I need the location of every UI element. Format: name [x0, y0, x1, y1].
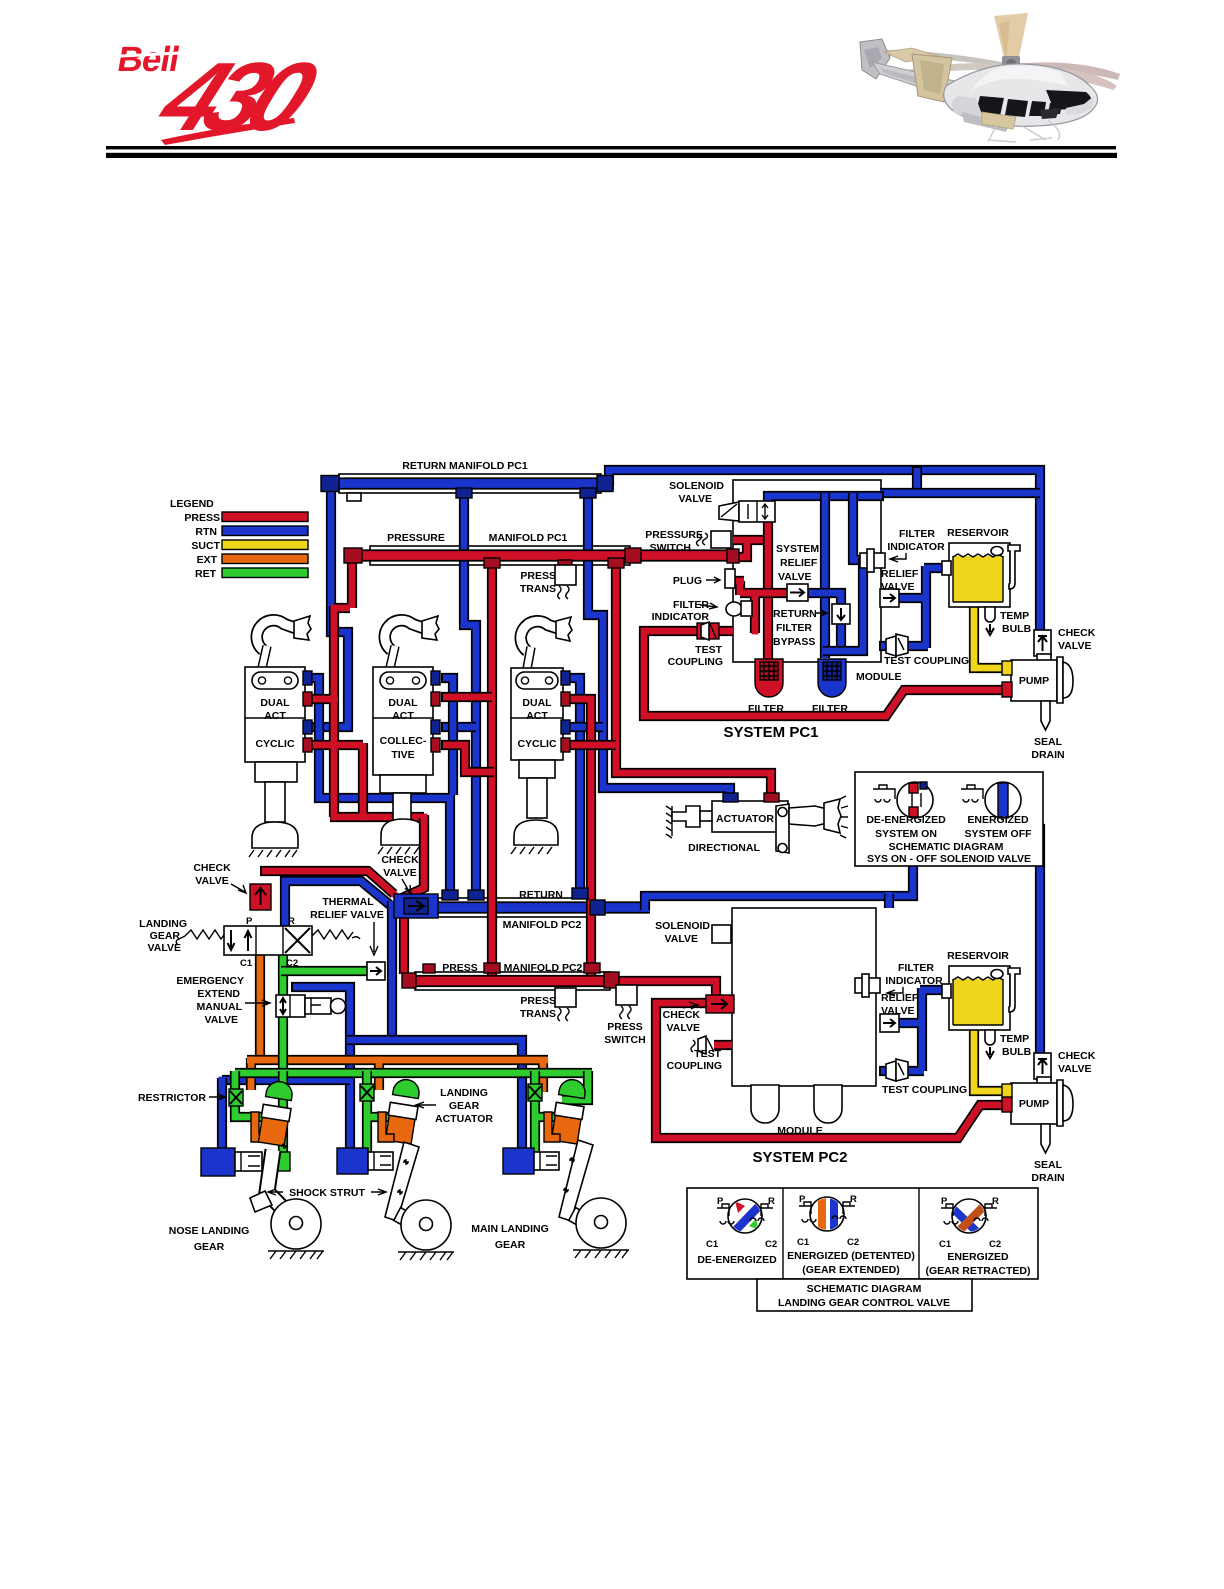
svg-text:DIRECTIONAL: DIRECTIONAL [688, 842, 760, 854]
svg-text:C2: C2 [989, 1239, 1001, 1250]
landing gear control valve [176, 926, 360, 955]
wire: pressure PC1 tee x492 down to press manifold PC2 [487, 562, 497, 975]
dual actuator collective 2 [373, 616, 440, 854]
svg-text:TRANS: TRANS [520, 583, 556, 595]
svg-text:TEST: TEST [694, 1048, 721, 1060]
svg-text:TEMP: TEMP [1000, 610, 1029, 622]
small white tab under return manifold left [347, 493, 361, 501]
junction patches red [331, 605, 338, 612]
svg-text:DE-ENERGIZED: DE-ENERGIZED [697, 1254, 777, 1266]
PC2 temp bulb [985, 1030, 995, 1058]
svg-text:THERMAL: THERMAL [322, 896, 374, 908]
svg-text:SHOCK STRUT: SHOCK STRUT [289, 1187, 365, 1199]
junction patches orange [257, 1057, 264, 1064]
wire: landing gear valve C1 orange riser [255, 953, 265, 1060]
svg-text:DE-ENERGIZED: DE-ENERGIZED [866, 814, 946, 826]
wire: press manifold PC2 red pipe [402, 975, 614, 987]
PC2 right relief valve [880, 1014, 899, 1032]
svg-text:ENERGIZED: ENERGIZED [947, 1251, 1009, 1263]
junction patches green [280, 1070, 287, 1077]
wire: module PC1 return exit line y493 [880, 488, 1040, 498]
PC2 red check valve [706, 995, 734, 1013]
wire: PC1 relief valve to reservoir return riser [879, 566, 950, 648]
svg-text:ENERGIZED (DETENTED): ENERGIZED (DETENTED) [787, 1250, 915, 1262]
PC1 right relief valve [880, 589, 899, 607]
PC2 white module filters [751, 1085, 779, 1123]
junction patch x889 y896 [886, 893, 893, 900]
svg-text:PRESS: PRESS [520, 570, 556, 582]
wire: nose gear downlock riser [217, 1078, 227, 1151]
svg-text:TEMP: TEMP [1000, 1033, 1029, 1045]
svg-text:INDICATOR: INDICATOR [652, 611, 710, 623]
svg-text:(GEAR EXTENDED): (GEAR EXTENDED) [802, 1264, 899, 1276]
junction patch x825 y593 [822, 590, 829, 597]
svg-text:FILTER: FILTER [898, 962, 934, 974]
svg-text:SCHEMATIC DIAGRAM: SCHEMATIC DIAGRAM [807, 1283, 922, 1295]
PC2 pump check valve [1034, 1053, 1051, 1079]
wire: orange extend header y1060 [247, 1058, 548, 1092]
svg-text:BYPASS: BYPASS [773, 636, 815, 648]
svg-text:SWITCH: SWITCH [650, 542, 691, 554]
svg-text:DUAL: DUAL [260, 697, 290, 709]
PC2 seal drain [1041, 1124, 1050, 1153]
PC1 reservoir [942, 543, 1020, 607]
wire: PC1 system relief valve outlet blue [808, 593, 841, 606]
legend [170, 498, 308, 580]
svg-text:PRESS: PRESS [520, 995, 556, 1007]
svg-text:VALVE: VALVE [778, 571, 811, 583]
svg-text:FILTER: FILTER [812, 703, 848, 715]
svg-text:SYSTEM: SYSTEM [776, 543, 819, 555]
wire: pressure PC1 left elbow down to cyclic1 port2 and LG press line y817 [260, 558, 424, 974]
wire: landing gear valve C2 green riser [278, 953, 288, 1073]
PC1 solenoid valve [719, 501, 775, 522]
PC2 press switch symbol [616, 985, 637, 1019]
wire: cyclic1 port1 down to LG return header y798 to return manifold PC2 [303, 678, 450, 893]
wire: pressure manifold PC1 red pipe into module [345, 549, 733, 561]
PC2 right filter indicator fitting [855, 974, 880, 997]
svg-text:C1: C1 [939, 1239, 952, 1250]
wire: PC1 suction yellow reservoir to pump [974, 604, 1006, 668]
wire: PC1 module bottom return gallery [823, 558, 863, 651]
wire: nose gear green downline [278, 1071, 288, 1163]
PC1 system relief valve [787, 584, 808, 601]
svg-text:R: R [992, 1196, 999, 1207]
legend ret bar [222, 568, 308, 578]
svg-text:TEST: TEST [695, 644, 722, 656]
junction patch x768 y593 x755 y631 [765, 590, 772, 597]
svg-text:TRANS: TRANS [520, 1008, 556, 1020]
wire: gear3 right green feed [562, 1071, 588, 1100]
svg-text:RELIEF: RELIEF [780, 557, 818, 569]
svg-text:SCHEMATIC DIAGRAM: SCHEMATIC DIAGRAM [889, 841, 1004, 853]
svg-text:PRESS: PRESS [184, 512, 220, 524]
svg-text:SYSTEM PC2: SYSTEM PC2 [752, 1149, 847, 1166]
svg-text:CHECK: CHECK [663, 1009, 701, 1021]
sys on-off solenoid valve legend box [855, 772, 1043, 866]
wire: collective port3 stub [441, 722, 476, 732]
PC2 reservoir [942, 966, 1020, 1030]
wire: cyclic3 port4 stub [563, 740, 616, 750]
PC1 press trans symbol [555, 565, 576, 599]
PC2 test coupling symbol [691, 1036, 714, 1054]
wire: PC1 module internal main return x825 to blue filter [820, 493, 830, 658]
wire: nose gear restrictor drop and actuator feed [235, 1071, 265, 1117]
wire: cyclic3 port2 down to press manifold PC2 [563, 699, 591, 975]
wire: cyclic3 port3 stub [563, 722, 603, 732]
PC2 press trans symbol [555, 988, 576, 1021]
legend rtn bar [222, 526, 308, 536]
svg-text:CHECK: CHECK [1058, 627, 1096, 639]
svg-text:VALVE: VALVE [881, 1005, 914, 1017]
svg-text:CHECK: CHECK [1058, 1050, 1096, 1062]
junction patch green x283 y971 [280, 968, 287, 975]
svg-text:CYCLIC: CYCLIC [255, 738, 295, 750]
junction patch y798 x450 [447, 795, 454, 802]
wire: PC2 suction yellow reservoir to pump [974, 1027, 1006, 1091]
directional actuator [666, 793, 848, 853]
wire: return PC2 right riser to PC2 module top and PC2 check valve [645, 829, 1040, 1056]
pressure manifold PC1 tees [484, 558, 500, 568]
svg-text:MAIN LANDING: MAIN LANDING [471, 1223, 549, 1235]
svg-text:DRAIN: DRAIN [1031, 1172, 1064, 1184]
svg-text:SOLENOID: SOLENOID [655, 920, 710, 932]
wire: press PC2 right extension to PC2 check valve and module [610, 981, 733, 1003]
svg-text:GEAR: GEAR [495, 1239, 526, 1251]
plug symbol [725, 569, 735, 588]
PC1 pressure switch [697, 531, 732, 548]
svg-text:VALVE: VALVE [195, 875, 228, 887]
return manifold PC2 end fitting right [590, 900, 605, 915]
svg-text:VALVE: VALVE [205, 1014, 238, 1026]
PC1 right filter indicator fitting [860, 549, 885, 572]
svg-text:PUMP: PUMP [1019, 675, 1049, 687]
PC1 left filter indicator symbol [726, 601, 752, 616]
svg-text:DUAL: DUAL [522, 697, 552, 709]
svg-text:NOSE LANDING: NOSE LANDING [169, 1225, 250, 1237]
svg-text:LANDING GEAR CONTROL VALVE: LANDING GEAR CONTROL VALVE [778, 1297, 950, 1309]
wire: gear2 green downline and actuator feed [367, 1071, 392, 1163]
wire: PC2 module top tee stub [884, 892, 894, 908]
PC1 temp bulb [985, 607, 995, 635]
wire: collective port1 riser [441, 678, 453, 795]
svg-text:PRESS: PRESS [607, 1021, 643, 1033]
wire: PC2 relief valve to reservoir return riser [879, 988, 950, 1071]
svg-text:TIVE: TIVE [391, 749, 414, 761]
module PC2 box [732, 908, 876, 1086]
wire: collective port2 stub [441, 692, 492, 702]
emergency extend manual valve [276, 995, 346, 1017]
landing gear control valve legend box [687, 1188, 1038, 1311]
svg-text:GEAR: GEAR [150, 930, 181, 942]
svg-text:(GEAR RETRACTED): (GEAR RETRACTED) [926, 1265, 1031, 1277]
wire: return PC1 left riser to cyclic1 port3 [303, 487, 348, 727]
Bell 430 logo [114, 40, 332, 151]
svg-text:RELIEF: RELIEF [881, 568, 919, 580]
svg-text:RELIEF: RELIEF [881, 992, 919, 1004]
wire: PC2 pump pressure loop [656, 1003, 1004, 1138]
header double rule [106, 146, 1116, 149]
svg-text:PRESSURE: PRESSURE [645, 529, 703, 541]
svg-text:INDICATOR: INDICATOR [885, 975, 943, 987]
svg-text:RELIEF VALVE: RELIEF VALVE [310, 909, 384, 921]
return manifold PC2 tube [438, 898, 593, 917]
svg-text:Bell: Bell [115, 40, 182, 79]
svg-text:TEST COUPLING: TEST COUPLING [884, 655, 969, 667]
return manifold PC2 tees [442, 890, 458, 900]
wire: landing gear valve R port return line to LG blue check valve [285, 881, 390, 927]
wire: return manifold PC1 blue pipe [325, 477, 614, 489]
junction patches x492 [489, 694, 496, 701]
svg-text:PUMP: PUMP [1019, 1098, 1049, 1110]
PC1 left test coupling symbol on red loop [697, 622, 719, 640]
svg-text:LEGEND: LEGEND [170, 498, 214, 510]
PC1 red pressure filter [755, 659, 783, 697]
svg-text:COUPLING: COUPLING [667, 1060, 722, 1072]
press manifold PC2 end fittings [402, 973, 416, 988]
wire: PC1 pump pressure loop (test coupling line) [644, 631, 1004, 716]
svg-text:FILTER: FILTER [748, 703, 784, 715]
svg-text:INDICATOR: INDICATOR [887, 541, 945, 553]
svg-text:VALVE: VALVE [667, 1022, 700, 1034]
svg-text:P: P [246, 916, 253, 927]
svg-text:BULB: BULB [1002, 623, 1032, 635]
svg-text:VALVE: VALVE [679, 493, 712, 505]
LG blue check valve [394, 894, 438, 918]
junction patch x603 y727 [600, 724, 607, 731]
wire: return manifold PC2 blue pipe [399, 901, 650, 913]
svg-text:SYSTEM PC1: SYSTEM PC1 [723, 724, 818, 741]
wire: top return connector x917 [912, 466, 922, 494]
svg-text:SOLENOID: SOLENOID [669, 480, 724, 492]
wire: PC1 return filter bypass outlet [836, 620, 846, 651]
svg-text:ENERGIZED: ENERGIZED [967, 814, 1029, 826]
wire: LG down-line header y1080 nose+main gear 2 [222, 1075, 350, 1085]
thermal relief valve symbol [367, 962, 385, 980]
PC2 solenoid valve stub box [712, 925, 731, 943]
junction patch x350 y1040 / x392 y1040 [347, 1037, 354, 1044]
svg-text:MANIFOLD PC1: MANIFOLD PC1 [489, 532, 568, 544]
svg-text:RETURN: RETURN [773, 608, 817, 620]
wire: return PC1 right riser and top return line to PC1 check valve [609, 470, 1040, 634]
press manifold PC2 tube [415, 972, 610, 990]
svg-text:DUAL: DUAL [388, 697, 418, 709]
PC2 right test coupling symbol [886, 1059, 908, 1081]
wire: return PC1 tee x464 down to return manifold PC2 (inter-manifold return) [464, 489, 476, 893]
wire: pressure PC1 tee x616 down to directional actuator red feed [616, 562, 771, 805]
main landing gear unit 3 [503, 1078, 629, 1258]
svg-text:VALVE: VALVE [881, 581, 914, 593]
svg-text:SYS ON - OFF SOLENOID VALVE: SYS ON - OFF SOLENOID VALVE [867, 853, 1031, 865]
svg-text:LANDING: LANDING [139, 918, 187, 930]
dual actuator cyclic 3 [511, 617, 572, 854]
svg-text:MODULE: MODULE [777, 1125, 823, 1137]
svg-text:SUCT: SUCT [191, 540, 220, 552]
svg-text:CHECK: CHECK [381, 854, 419, 866]
wire: PC1 module internal return gallery y496 [768, 496, 884, 505]
svg-text:RESERVOIR: RESERVOIR [947, 950, 1009, 962]
svg-text:ACTUATOR: ACTUATOR [435, 1113, 493, 1125]
PC1 pump check valve [1034, 630, 1051, 656]
wire: return PC1 tee x588 down jog to directional actuator blue feed [588, 487, 730, 805]
svg-text:GEAR: GEAR [194, 1241, 225, 1253]
svg-text:RESTRICTOR: RESTRICTOR [138, 1092, 206, 1104]
svg-text:VALVE: VALVE [1058, 640, 1091, 652]
svg-text:EXTEND: EXTEND [197, 988, 240, 1000]
return manifold PC1 tube [339, 474, 601, 493]
nose landing gear unit [201, 1080, 324, 1259]
svg-text:VALVE: VALVE [148, 942, 181, 954]
svg-text:RET: RET [195, 568, 217, 580]
wire: emergency extend return branch [291, 987, 350, 1151]
svg-text:MANUAL: MANUAL [197, 1001, 243, 1013]
svg-text:SWITCH: SWITCH [604, 1034, 645, 1046]
wire: cyclic3 port1 down to return manifold PC2 [563, 678, 580, 895]
svg-text:VALVE: VALVE [665, 933, 698, 945]
svg-text:RESERVOIR: RESERVOIR [947, 527, 1009, 539]
wire: LG down-line header y1040 to main gear 3 [347, 1040, 522, 1151]
wire: thermal relief valve green line [281, 966, 368, 976]
wire: PC2 test coupling stub [714, 1040, 732, 1050]
wire: thermal relief return drop x392 [387, 901, 397, 1041]
svg-text:EXT: EXT [197, 554, 218, 566]
svg-text:DRAIN: DRAIN [1031, 749, 1064, 761]
PC2 pump [1002, 1077, 1073, 1126]
svg-text:TEST COUPLING: TEST COUPLING [882, 1084, 967, 1096]
svg-text:PLUG: PLUG [673, 575, 702, 587]
wire: PC1 module relief branch y593 [735, 581, 790, 633]
svg-text:MANIFOLD PC2: MANIFOLD PC2 [503, 919, 582, 931]
svg-text:C2: C2 [286, 958, 298, 969]
pressure manifold PC1 tube [370, 546, 630, 565]
dual actuator cyclic 1 [245, 616, 312, 857]
return manifold PC1 end fittings [321, 476, 339, 492]
svg-text:COLLEC-: COLLEC- [380, 735, 427, 747]
landing gear unit 2 [337, 1078, 454, 1260]
svg-text:MANIFOLD PC2: MANIFOLD PC2 [504, 962, 583, 974]
wire: collective port4 drop [441, 745, 494, 772]
wire: PC1 module internal pressure entry [730, 540, 772, 557]
PC1 pump [1002, 654, 1073, 703]
svg-text:C1: C1 [797, 1237, 810, 1248]
svg-text:ACTUATOR: ACTUATOR [716, 813, 774, 825]
svg-text:R: R [288, 916, 295, 927]
svg-text:RETURN MANIFOLD PC1: RETURN MANIFOLD PC1 [402, 460, 528, 472]
return manifold PC1 tees [456, 488, 472, 498]
svg-text:C2: C2 [847, 1237, 859, 1248]
svg-text:PRESS: PRESS [442, 962, 478, 974]
svg-text:C1: C1 [706, 1239, 719, 1250]
legend suct bar [222, 540, 308, 550]
svg-text:CHECK: CHECK [193, 862, 231, 874]
svg-text:PRESSURE: PRESSURE [387, 532, 445, 544]
svg-text:RTN: RTN [195, 526, 217, 538]
wire: green retract header y1073 [235, 1068, 592, 1078]
svg-text:R: R [768, 1196, 775, 1207]
svg-text:SYSTEM OFF: SYSTEM OFF [964, 828, 1032, 840]
wire: press line x424 overdraw [419, 818, 429, 886]
svg-text:P: P [941, 1196, 948, 1207]
svg-text:VALVE: VALVE [1058, 1063, 1091, 1075]
module PC1 box [733, 480, 881, 662]
junction patch x350 y1080 x222 y1080 [347, 1077, 354, 1084]
helicopter illustration [860, 13, 1120, 142]
svg-text:GEAR: GEAR [449, 1100, 480, 1112]
svg-text:R: R [850, 1194, 857, 1205]
PC1 return filter bypass valve [832, 604, 850, 624]
junction patch x616 y745 [613, 742, 620, 749]
svg-text:MODULE: MODULE [856, 671, 902, 683]
legend ext bar [222, 554, 308, 564]
legend press bar [222, 512, 308, 522]
svg-text:VALVE: VALVE [383, 867, 416, 879]
svg-text:SEAL: SEAL [1034, 736, 1063, 748]
svg-text:SYSTEM ON: SYSTEM ON [875, 828, 937, 840]
svg-text:SEAL: SEAL [1034, 1159, 1063, 1171]
svg-text:FILTER: FILTER [776, 622, 812, 634]
wire: PC1 module main pressure riser to red filter [763, 519, 773, 660]
svg-text:FILTER: FILTER [899, 528, 935, 540]
PC1 blue return filter [818, 659, 846, 697]
svg-text:C1: C1 [240, 958, 253, 969]
svg-text:EMERGENCY: EMERGENCY [176, 975, 244, 987]
svg-text:RETURN: RETURN [519, 889, 563, 901]
svg-text:ACT: ACT [392, 710, 414, 722]
press manifold PC2 tees [484, 963, 500, 973]
PC1 right test coupling symbol [886, 634, 908, 656]
svg-text:P: P [717, 1196, 724, 1207]
svg-text:C2: C2 [765, 1239, 777, 1250]
PC1 seal drain [1041, 701, 1050, 730]
svg-text:P: P [799, 1194, 806, 1205]
svg-text:ACT: ACT [264, 710, 286, 722]
svg-text:ACT: ACT [526, 710, 548, 722]
svg-text:CYCLIC: CYCLIC [517, 738, 557, 750]
wire: gear3 green downline and actuator feed [535, 1071, 558, 1163]
pressure manifold PC1 end fittings [344, 548, 362, 563]
svg-text:COUPLING: COUPLING [668, 656, 723, 668]
wire: PC1 module internal riser x853 to filter indicator [853, 493, 864, 560]
svg-text:LANDING: LANDING [440, 1087, 488, 1099]
svg-text:BULB: BULB [1002, 1046, 1032, 1058]
LG red check valve [250, 884, 271, 910]
